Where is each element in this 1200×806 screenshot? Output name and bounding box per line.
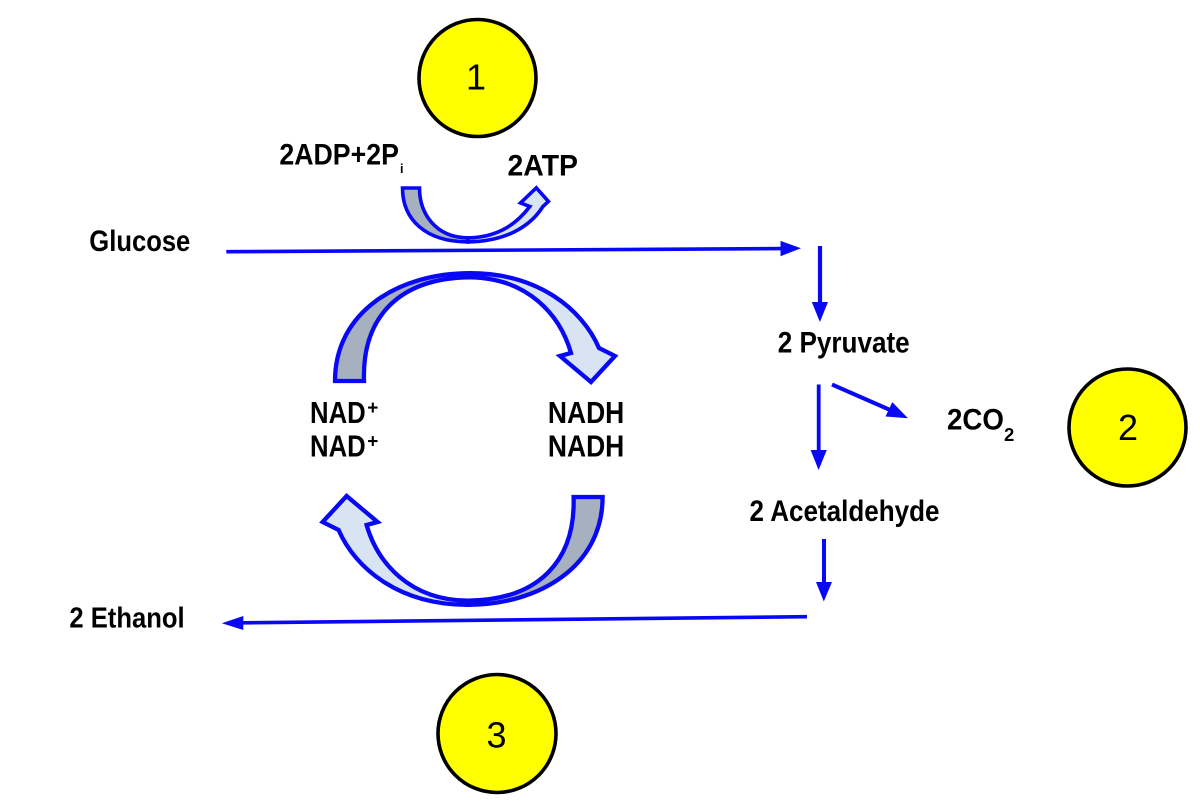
svg-text:2 Pyruvate: 2 Pyruvate	[778, 326, 910, 359]
arrow glucose to pyruvate head	[812, 302, 828, 322]
svg-text:2CO: 2CO	[947, 403, 1004, 436]
svg-text:NAD: NAD	[310, 397, 366, 430]
svg-text:2ATP: 2ATP	[508, 150, 579, 183]
svg-text:3: 3	[486, 715, 506, 756]
step circle 3	[438, 675, 556, 793]
svg-text:Glucose: Glucose	[89, 225, 190, 258]
arrow acetaldehyde to ethanol line	[822, 539, 826, 582]
arrow acetaldehyde to ethanol head	[816, 582, 832, 602]
ethanol arrow head	[222, 616, 244, 630]
svg-text:2: 2	[1004, 424, 1014, 445]
step circle 2	[1069, 369, 1186, 486]
arrow pyruvate to acetaldehyde head	[811, 450, 827, 470]
arrow pyruvate to acetaldehyde line	[817, 385, 821, 451]
ATP swoosh arrow gray tail	[403, 188, 469, 242]
svg-text:2 Ethanol: 2 Ethanol	[69, 603, 184, 635]
glucose arrow head	[781, 241, 802, 256]
svg-text:2: 2	[1118, 407, 1138, 448]
NAD cycle top arc gray tail	[335, 273, 470, 381]
svg-text:+: +	[367, 398, 378, 419]
NAD cycle bottom arc gray tail	[468, 497, 603, 605]
svg-text:2 Acetaldehyde: 2 Acetaldehyde	[750, 495, 940, 528]
step circle 1	[419, 20, 536, 137]
NAD cycle bottom arc blue head	[323, 496, 468, 605]
svg-text:NADH: NADH	[548, 397, 624, 430]
svg-text:+: +	[367, 432, 378, 453]
ATP swoosh arrow blue head	[468, 188, 548, 242]
svg-text:i: i	[400, 162, 403, 176]
svg-text:1: 1	[466, 57, 486, 98]
arrow pyruvate to CO2 line	[832, 385, 889, 410]
arrow glucose to pyruvate line	[818, 246, 822, 302]
arrow pyruvate to CO2 head	[886, 402, 909, 418]
svg-text:NADH: NADH	[548, 431, 624, 464]
NAD cycle top arc blue head	[470, 273, 615, 382]
ethanol arrow line	[243, 617, 807, 623]
svg-text:2ADP+2P: 2ADP+2P	[279, 138, 399, 171]
svg-text:NAD: NAD	[310, 431, 366, 464]
glucose arrow line	[226, 249, 780, 252]
